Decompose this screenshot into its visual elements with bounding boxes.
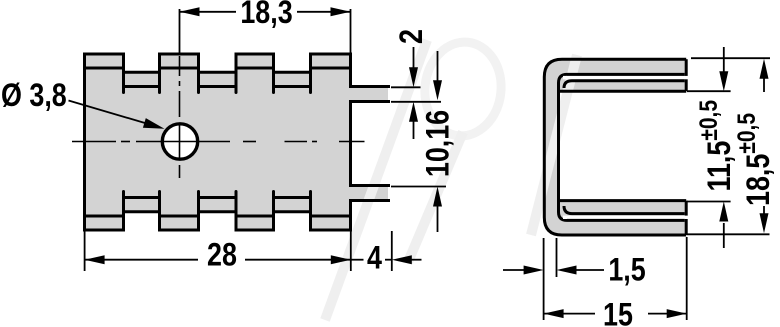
slot 1 bottom verticals	[122, 192, 125, 231]
dimension 28	[85, 231, 351, 271]
heatsink front view body fill	[85, 54, 389, 230]
watermark band 1	[408, 132, 463, 262]
slot 2 top verticals	[197, 54, 200, 93]
side view bottom arm pair lines	[567, 219, 685, 222]
vertical centerline	[179, 56, 181, 178]
heatsink front view outline	[85, 54, 391, 230]
side view body fill	[544, 59, 686, 235]
slot 3 bottom verticals	[272, 192, 275, 231]
svg-text:15: 15	[603, 297, 633, 327]
dimension 1,5	[503, 238, 604, 320]
slot 2 bottom verticals	[197, 192, 200, 231]
bottom internal tab lines	[85, 215, 124, 218]
watermark band 3	[531, 55, 577, 235]
side view bottom arm inner edge	[560, 199, 686, 202]
dimension 2	[391, 47, 441, 139]
watermark band 2	[325, 40, 427, 320]
svg-text:18,3: 18,3	[240, 0, 292, 31]
dimension 18,5	[687, 58, 770, 234]
svg-text:10,16: 10,16	[420, 110, 456, 177]
dimension 11,5	[687, 47, 731, 248]
watermark ellipse	[420, 38, 505, 139]
side view top arm pair lines	[567, 73, 685, 76]
side view top arm inner edge	[560, 90, 686, 93]
white gaps in arms	[563, 76, 689, 79]
bottom internal slot lines	[124, 196, 160, 199]
svg-text:28: 28	[207, 237, 237, 273]
top internal tab lines	[85, 67, 124, 70]
dimension 4	[351, 231, 422, 271]
slot 1 top verticals	[122, 54, 125, 93]
svg-text:4: 4	[367, 240, 382, 276]
hole circle	[162, 124, 197, 159]
horizontal centerline	[72, 141, 365, 143]
side view inner wall line	[559, 74, 568, 220]
svg-text:Ø 3,8: Ø 3,8	[1, 78, 67, 114]
side view arm end verticals	[685, 59, 688, 91]
dimension 15	[544, 237, 687, 320]
svg-text:1,5: 1,5	[608, 252, 645, 288]
dimension 10,16	[391, 51, 446, 232]
svg-text:2: 2	[394, 29, 430, 44]
leader line	[69, 101, 151, 125]
dimension 18,3	[180, 9, 351, 53]
side view outer outline	[544, 59, 686, 235]
slot 3 top verticals	[272, 54, 275, 93]
top internal slot lines	[124, 85, 160, 88]
top slot inner verticals and lines	[124, 54, 311, 230]
